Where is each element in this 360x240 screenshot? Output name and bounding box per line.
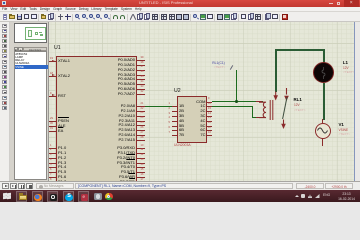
title bar bbox=[0, 0, 360, 7]
status bar bbox=[0, 181, 360, 190]
wire U2.COM to relay coil top bbox=[212, 101, 264, 102]
overview window bbox=[14, 23, 48, 43]
junction node on COM net bbox=[235, 100, 238, 103]
wire stub with net label, vertical from junction bbox=[236, 70, 237, 102]
relay RL1 bbox=[49, 21, 354, 23]
left tool strip bbox=[0, 22, 10, 181]
schematic canvas bbox=[49, 22, 354, 181]
wire relay NO contact to lamp (loop) bbox=[49, 21, 354, 23]
wire lamp bottom to V1 bbox=[323, 83, 324, 120]
device list bbox=[14, 51, 48, 180]
wire U2.1C to relay coil bottom bbox=[49, 21, 354, 23]
wire U1.P2.0 to U2.1B bbox=[145, 106, 172, 107]
selector header bbox=[14, 47, 19, 51]
AC source V1 VSINE bbox=[49, 21, 354, 23]
left panel bbox=[10, 22, 49, 181]
toolbar bbox=[0, 12, 360, 22]
microcontroller U1 bbox=[49, 21, 354, 23]
taskbar bbox=[0, 190, 360, 202]
driver IC U2 ULN2003A bbox=[49, 21, 354, 23]
net label RL1(C1) bbox=[49, 21, 354, 23]
menu bar bbox=[0, 7, 360, 13]
window right edge bbox=[354, 22, 360, 181]
lamp L1 bbox=[49, 21, 354, 23]
